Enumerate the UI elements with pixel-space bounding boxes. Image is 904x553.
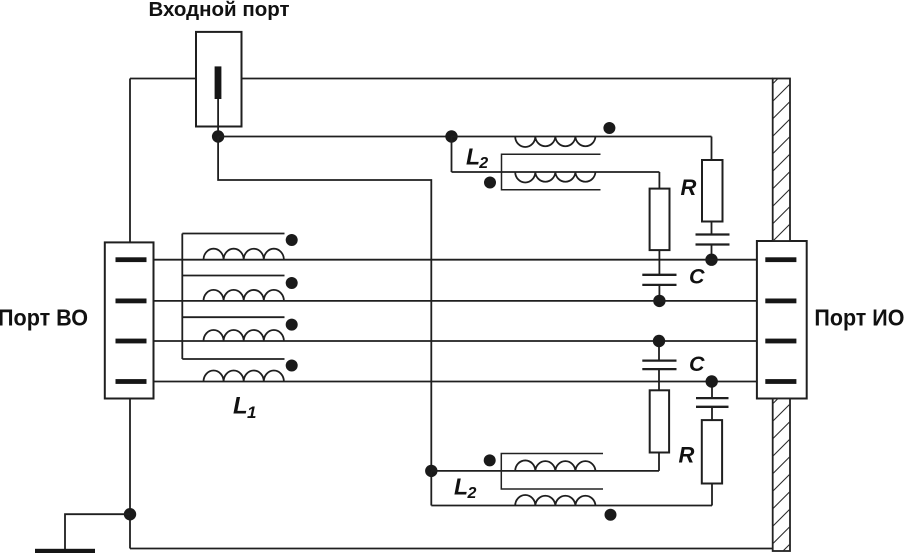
inductor L1 winding 1 bbox=[204, 249, 284, 260]
inductor L2 lower winding (top block, arcs down) bbox=[515, 172, 595, 182]
input port box (Входной порт) bbox=[196, 32, 242, 127]
node junction dot on line 4 bbox=[706, 375, 718, 387]
port VO box bbox=[105, 242, 154, 398]
svg-text:Порт ИО: Порт ИО bbox=[814, 305, 904, 331]
label L1 bbox=[233, 392, 256, 422]
inductor L1 winding 4 bbox=[204, 371, 284, 382]
node junction dot on line 2 bbox=[653, 295, 665, 307]
port IO contact bar 2 bbox=[765, 299, 796, 304]
ground bbox=[35, 549, 95, 553]
wire capacitor to node on line 2 bbox=[658, 285, 660, 301]
port VO contact bar 3 bbox=[116, 339, 147, 344]
node junction dot bottom L2 input bbox=[425, 465, 437, 477]
port IO contact bar 4 bbox=[765, 379, 796, 384]
wire resistor to capacitor C crossing line 1 bbox=[658, 250, 660, 275]
wire node A to top L2 node bbox=[218, 136, 451, 138]
node junction dot on line 3 bbox=[653, 335, 665, 347]
label L2 (bottom) bbox=[454, 474, 477, 503]
polarity dot L1-2 bbox=[286, 277, 298, 289]
resistor R (bottom) bbox=[702, 420, 722, 483]
wire bottom L2 lower winding line bbox=[431, 505, 712, 507]
label Входной порт bbox=[148, 0, 289, 21]
label R (bottom) bbox=[679, 443, 695, 468]
node A junction dot bbox=[212, 130, 224, 142]
signal line 3 bbox=[146, 340, 765, 342]
wire R up to capacitor bbox=[711, 407, 713, 420]
capacitor above R (bottom) bbox=[696, 398, 729, 407]
L1 secondary line 4 bbox=[182, 358, 284, 360]
port IO contact bar 3 bbox=[765, 339, 796, 344]
port VO contact bar 4 bbox=[116, 379, 147, 384]
port VO contact bar 1 bbox=[116, 257, 147, 262]
svg-text:1: 1 bbox=[247, 403, 256, 422]
polarity dot L1-1 bbox=[286, 234, 298, 246]
label Порт ВО bbox=[0, 305, 88, 331]
svg-text:2: 2 bbox=[467, 485, 477, 502]
wire port VO bottom to ground node bbox=[129, 399, 131, 549]
node junction dot on line 1 bbox=[705, 254, 717, 266]
label C (top) bbox=[689, 264, 705, 288]
polarity dot bottom L2 upper winding bbox=[484, 454, 496, 466]
node B junction dot (top L2 input) bbox=[445, 130, 457, 142]
wire top-left segment bbox=[130, 78, 196, 80]
svg-text:C: C bbox=[689, 352, 705, 376]
wire down to bottom L2 lower winding bbox=[430, 471, 432, 506]
wire resistor up to capacitor crossing line 4 bbox=[658, 369, 660, 390]
label R (top) bbox=[681, 175, 697, 200]
inductor L1 winding 3 bbox=[204, 330, 284, 341]
bottom wire bbox=[130, 548, 773, 550]
capacitor below R (top) bbox=[696, 235, 730, 245]
shield wall upper (hatched) bbox=[770, 64, 793, 245]
shield wall lower (hatched) bbox=[770, 384, 793, 553]
core bracket bottom L2 bbox=[501, 454, 603, 490]
polarity dot top L2 upper winding bbox=[603, 122, 615, 134]
signal line 1 bbox=[146, 259, 765, 261]
signal line 2 bbox=[146, 300, 765, 302]
wire capacitor to node on line 4 bbox=[711, 382, 713, 399]
svg-text:L: L bbox=[466, 144, 480, 170]
inductor L2 upper winding (top block, arcs down) bbox=[515, 137, 595, 147]
resistor (unlabeled, top branch) bbox=[650, 172, 670, 250]
port IO contact bar 1 bbox=[765, 257, 796, 262]
L1 secondary line 2 bbox=[182, 275, 284, 277]
L1 secondary line 3 bbox=[182, 316, 284, 318]
polarity dot L1-4 bbox=[286, 360, 298, 372]
resistor R (top) bbox=[702, 160, 723, 222]
wire to ground symbol bbox=[65, 514, 130, 549]
wire node A down, right and down to bottom L2 bbox=[218, 137, 431, 471]
svg-text:L: L bbox=[233, 392, 248, 419]
inductor L2 upper winding (bottom block, arcs up) bbox=[515, 460, 595, 470]
inductor L2 lower winding (bottom block, arcs up) bbox=[515, 495, 595, 505]
wire R to capacitor bbox=[711, 222, 713, 235]
wire top L2 upper winding down to R bbox=[711, 137, 713, 161]
resistor (unlabeled, bottom branch) bbox=[650, 390, 669, 471]
svg-text:R: R bbox=[681, 175, 697, 200]
polarity dot bottom L2 lower winding bbox=[605, 509, 617, 521]
wire top L2 upper winding line bbox=[452, 136, 712, 138]
svg-text:R: R bbox=[679, 443, 695, 468]
port IO box bbox=[757, 241, 807, 399]
wire node B down to lower winding bbox=[451, 137, 453, 173]
wire input port bar to node A bbox=[217, 99, 219, 137]
polarity dot top L2 lower winding bbox=[484, 177, 496, 189]
L1 secondary line 1 bbox=[182, 233, 284, 235]
label Порт ИО bbox=[814, 305, 904, 331]
core bracket top L2 bbox=[502, 154, 601, 190]
svg-text:Порт ВО: Порт ВО bbox=[0, 305, 88, 331]
svg-text:L: L bbox=[454, 474, 468, 500]
wire top-right segment to wall bbox=[242, 78, 773, 80]
wire bottom L2 upper winding line bbox=[431, 470, 659, 472]
wire capacitor to node on line 3 bbox=[658, 341, 660, 361]
wire top L2 lower winding line bbox=[452, 171, 660, 173]
label L2 (top) bbox=[466, 144, 488, 173]
svg-text:C: C bbox=[689, 264, 705, 288]
signal line 4 bbox=[146, 381, 765, 383]
svg-text:2: 2 bbox=[478, 155, 488, 172]
wire bottom L2 lower winding up to R bbox=[711, 484, 713, 506]
L1 secondary bus vertical bbox=[181, 234, 183, 360]
svg-text:Входной порт: Входной порт bbox=[148, 0, 289, 21]
port VO contact bar 2 bbox=[116, 299, 147, 304]
input port contact bar bbox=[215, 66, 222, 99]
label C (bottom) bbox=[689, 352, 705, 376]
wire capacitor to node on line 1 bbox=[711, 245, 713, 260]
polarity dot L1-3 bbox=[286, 319, 298, 331]
wire left vertical from top line to Port VO bbox=[129, 79, 131, 243]
inductor L1 winding 2 bbox=[204, 290, 284, 301]
capacitor C (top) bbox=[642, 275, 676, 285]
capacitor C (bottom) bbox=[642, 361, 676, 370]
ground node junction dot bbox=[124, 508, 136, 520]
